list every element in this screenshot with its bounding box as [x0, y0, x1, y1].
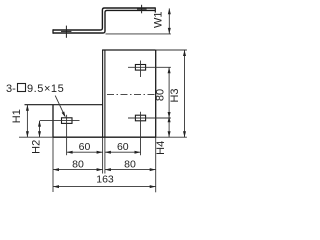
square hole left (front view) — [62, 118, 73, 124]
front view: bend line (double) — [102, 50, 104, 137]
front view: bottom edge — [53, 136, 156, 138]
dimension 60 left segment — [67, 151, 103, 153]
lower right hole horizontal centerline extended to 80/H4 dim — [128, 117, 171, 119]
top view: left end cap of lower flange — [52, 29, 54, 33]
svg-text:H1: H1 — [11, 109, 23, 123]
dimension 163 overall width — [53, 186, 156, 188]
svg-text:H2: H2 — [30, 140, 42, 154]
bend line extensions down to 60/80 dimension rows — [102, 137, 104, 173]
top view: bent sheet profile inner line (flange bottom -> web right -> upper flange bottom) — [53, 10, 155, 33]
front view: right edge of tall plate — [155, 50, 157, 137]
svg-text:80: 80 — [124, 158, 136, 170]
svg-text:W1: W1 — [153, 12, 165, 29]
left hole horizontal centerline (to H2 dimension) — [40, 120, 80, 122]
front view: left edge of flange — [52, 105, 54, 138]
svg-text:3-: 3- — [6, 83, 16, 95]
dimension 80 left segment — [53, 169, 103, 171]
extension of left flange edge down to 80/163 dimensions — [52, 137, 54, 192]
svg-text:H3: H3 — [169, 88, 181, 102]
dimension 80 right segment — [105, 169, 156, 171]
front view: top edge of tall plate — [102, 49, 156, 51]
svg-text:60: 60 — [117, 141, 129, 153]
upper right hole vertical centerline — [140, 61, 142, 78]
extension of bottom edge to the right for H4/H3 — [156, 136, 187, 138]
top view: hole centerline cross on upper flange — [141, 5, 143, 14]
dimension H2 line with arrows — [39, 121, 41, 138]
lower right hole vertical centerline — [140, 112, 142, 155]
front view: top edge of left flange with extension to H1 — [25, 104, 104, 106]
dimension H1 line with arrows — [26, 105, 28, 138]
extension of top edge to H3 dimension — [156, 49, 187, 51]
svg-text:163: 163 — [96, 173, 114, 185]
leader line from hole note to left hole — [55, 96, 65, 116]
dimension 80 vertical between right holes — [168, 67, 170, 118]
svg-text:9.5×15: 9.5×15 — [27, 83, 64, 95]
dimension 60 right segment — [105, 151, 141, 153]
top view: bent sheet profile outer line (flange top -> web left -> upper flange top) — [53, 8, 155, 30]
square hole upper right (front view) — [135, 65, 145, 71]
svg-text:60: 60 — [79, 141, 91, 153]
extension of bottom edge to the left for H1 — [19, 136, 53, 138]
top view: hole centerline cross on lower flange — [65, 26, 67, 38]
dimension W1 line with arrows — [168, 8, 170, 34]
top view: right end cap of upper flange — [154, 7, 156, 12]
dimension H4 (lower right hole to bottom) — [168, 118, 170, 137]
extension of right edge down to 163 dimension — [155, 137, 157, 192]
svg-text:80: 80 — [72, 158, 84, 170]
svg-text:H4: H4 — [155, 141, 167, 155]
left hole vertical centerline — [66, 115, 68, 155]
svg-text:80: 80 — [155, 89, 167, 101]
horizontal dash-dot center axis of tall plate — [107, 94, 156, 96]
dimension H3 overall height — [184, 50, 186, 137]
square hole lower right (front view) — [135, 115, 145, 121]
upper right hole horizontal centerline extended to 80 dim — [128, 66, 171, 68]
extension line for W1 (bottom of profile) — [106, 33, 171, 35]
